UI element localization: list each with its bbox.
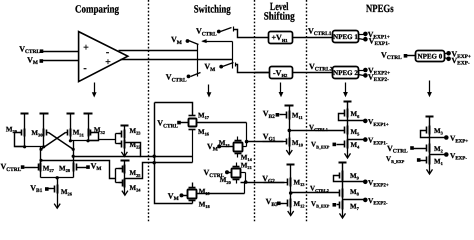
svg-text:+: + [83, 42, 89, 53]
svg-text:NPEG 1: NPEG 1 [333, 33, 358, 41]
svg-text:Switching: Switching [194, 3, 231, 15]
svg-text:+: + [105, 57, 111, 68]
svg-text:Shifting: Shifting [264, 10, 295, 22]
svg-text:NPEG 2: NPEG 2 [333, 69, 358, 77]
svg-text:-: - [83, 63, 86, 74]
svg-text:NPEGs: NPEGs [366, 3, 394, 15]
svg-text:NPEG 0: NPEG 0 [418, 52, 443, 60]
svg-text:Comparing: Comparing [75, 3, 119, 15]
